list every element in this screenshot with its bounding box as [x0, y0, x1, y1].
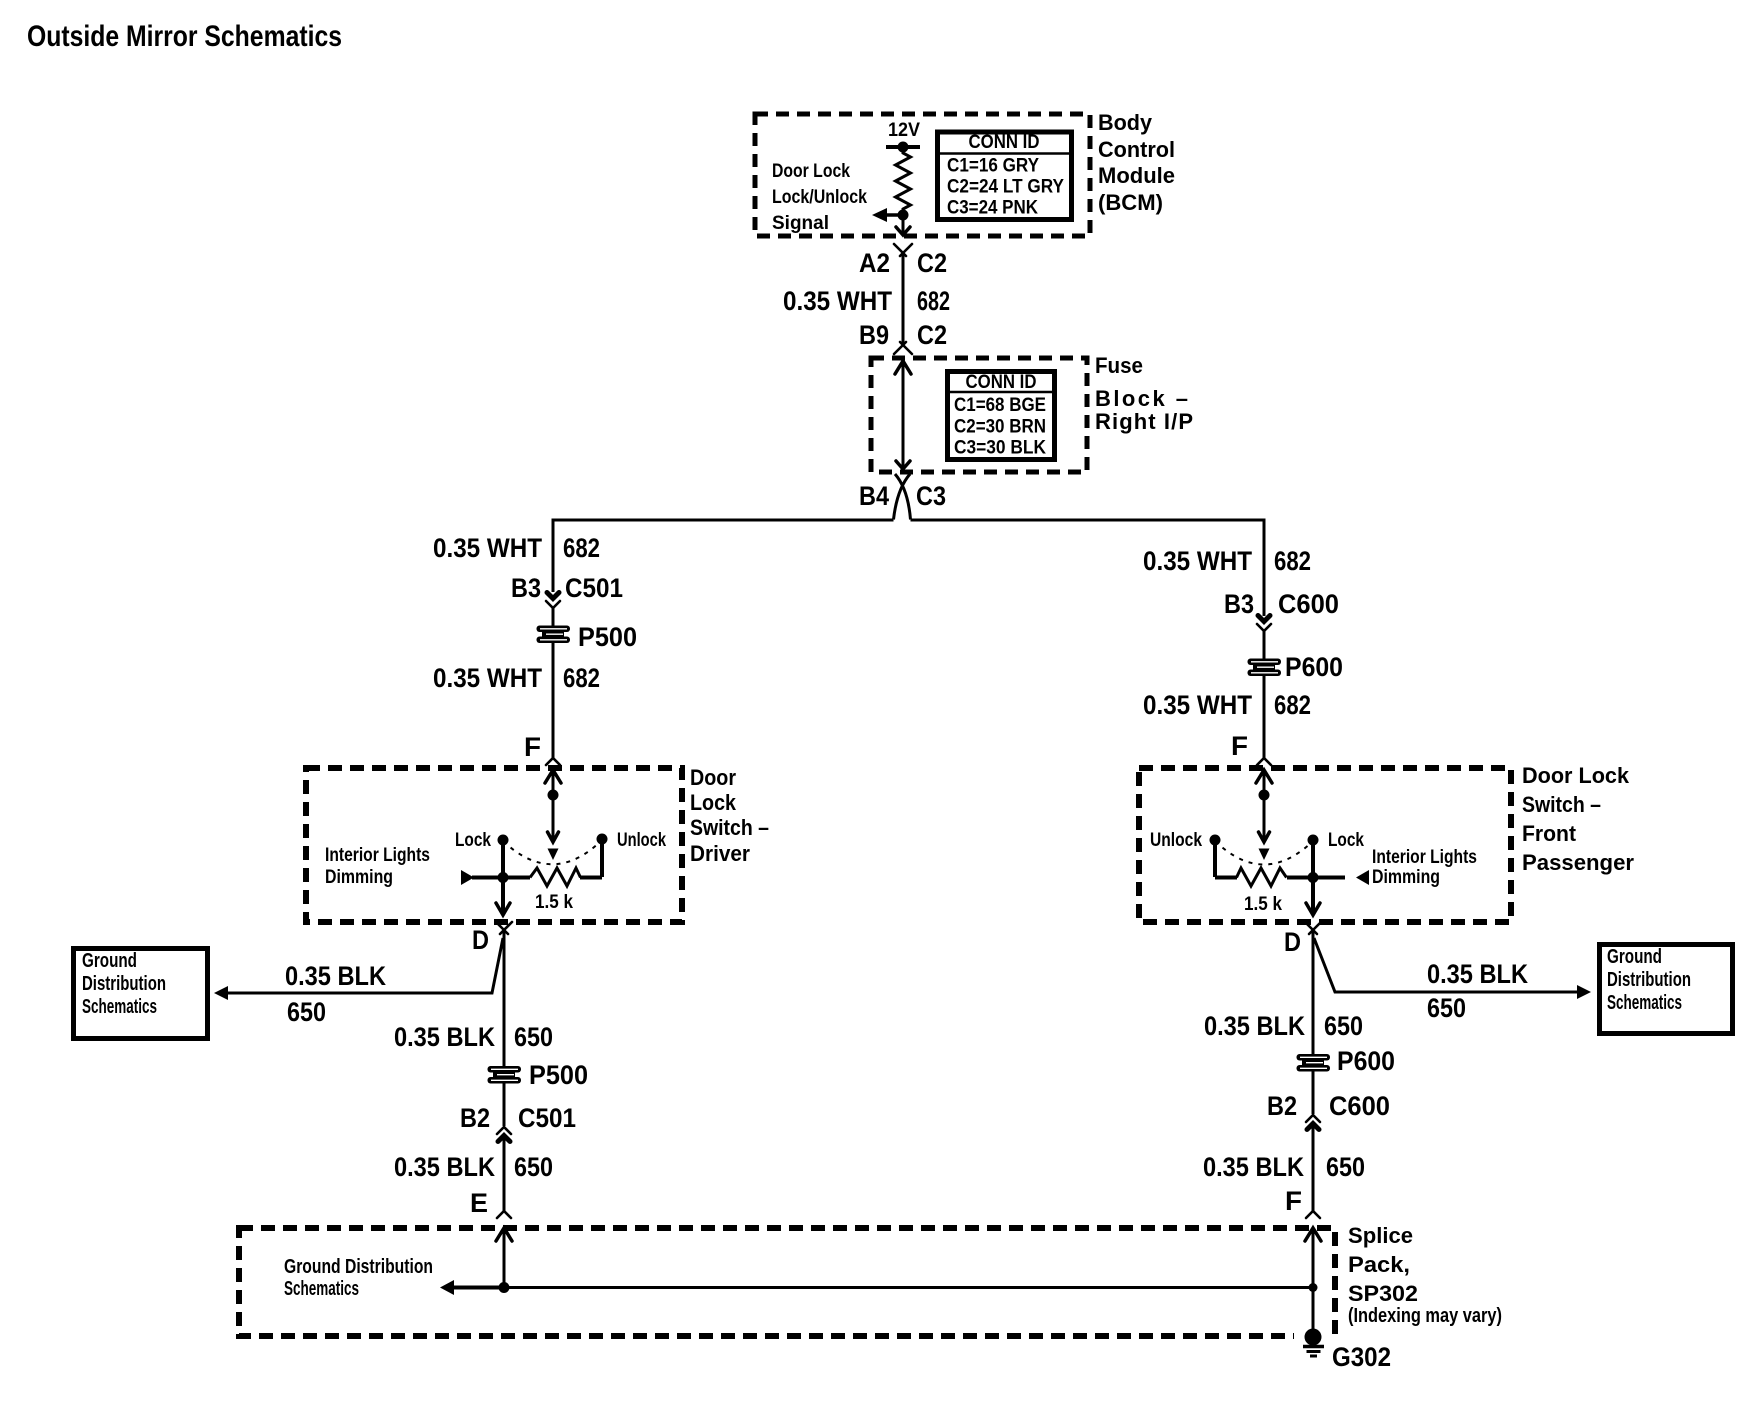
wire 682 WHT to driver door lock switch: [553, 520, 894, 592]
ground distribution arrow (bottom left): [440, 1280, 504, 1295]
svg-text:682: 682: [563, 663, 600, 693]
wire 650 BLK down from D (passenger): [1312, 931, 1315, 1054]
svg-text:Right I/P: Right I/P: [1095, 409, 1193, 434]
down arrow to switch wiper: [548, 832, 559, 842]
entry arrow into driver switch: [545, 770, 561, 783]
svg-text:0.35 BLK: 0.35 BLK: [1204, 1011, 1305, 1041]
dimming label Interior Lights Dimming (driver): [325, 845, 430, 888]
svg-text:CONN ID: CONN ID: [969, 132, 1040, 153]
output wire with down arrow (passenger switch pin D): [1306, 877, 1320, 915]
svg-text:C2=30 BRN: C2=30 BRN: [954, 417, 1046, 438]
Ground Distribution Schematics label (bottom): [284, 1256, 433, 1300]
svg-text:A2: A2: [859, 248, 890, 278]
connector chevron at pin F (passenger switch): [1257, 758, 1271, 765]
svg-text:P500: P500: [529, 1060, 588, 1090]
connector C600 halves (male arrow + female chevron): [1257, 616, 1271, 632]
svg-text:Ground: Ground: [82, 950, 137, 972]
svg-text:0.35 BLK: 0.35 BLK: [394, 1152, 495, 1182]
junction dot inside passenger switch: [1259, 790, 1270, 801]
junction dot at dimming tap (driver): [498, 872, 509, 883]
svg-text:0.35 WHT: 0.35 WHT: [1143, 546, 1252, 576]
grommet P500 (lower): [488, 1066, 522, 1084]
wire from Unlock contact down (passenger): [1213, 843, 1217, 877]
wire inside driver switch: [552, 770, 555, 841]
svg-text:0.35 BLK: 0.35 BLK: [394, 1022, 495, 1052]
svg-text:1.5 k: 1.5 k: [535, 892, 573, 913]
svg-text:Schematics: Schematics: [284, 1278, 359, 1300]
Lock contact dot (driver): [498, 835, 509, 846]
svg-text:650: 650: [287, 997, 326, 1027]
svg-text:D: D: [472, 925, 489, 955]
resistor 1.5k (driver switch): [503, 868, 602, 886]
wire from P600 down to switch: [1263, 676, 1266, 758]
output wire with down arrow (driver switch pin D): [496, 877, 510, 915]
Unlock contact dot (driver): [597, 834, 608, 845]
svg-text:Front: Front: [1522, 821, 1577, 846]
svg-text:Unlock: Unlock: [617, 830, 666, 851]
entry arrow into bottom box (right, pin F): [1305, 1228, 1321, 1287]
signal arrow to Door Lock Lock/Unlock Signal: [887, 213, 903, 217]
svg-text:Splice: Splice: [1348, 1223, 1413, 1248]
svg-text:C600: C600: [1329, 1091, 1390, 1121]
wire from Lock contact down: [501, 843, 505, 877]
dimming label Interior Lights Dimming (passenger): [1372, 847, 1477, 888]
svg-text:G302: G302: [1332, 1342, 1391, 1372]
down arrow to switch wiper (passenger): [1259, 832, 1270, 842]
resistor 1.5k (passenger switch): [1215, 868, 1313, 886]
svg-text:Distribution: Distribution: [1607, 969, 1691, 991]
svg-text:C2: C2: [917, 320, 947, 350]
svg-text:Door Lock: Door Lock: [772, 161, 850, 182]
connector chevron at splice pack pin F: [1306, 1211, 1320, 1218]
svg-text:B2: B2: [1267, 1091, 1297, 1121]
down arrow at fuse block exit: [896, 461, 910, 469]
svg-text:Dimming: Dimming: [1372, 867, 1440, 888]
Ground Distribution Schematics label (left): [82, 950, 166, 1018]
svg-text:SP302: SP302: [1348, 1281, 1418, 1306]
entry arrow into bottom box (left, pin E): [496, 1228, 512, 1287]
Ground Distribution Schematics label (right): [1607, 946, 1691, 1014]
junction dot at signal tap: [898, 210, 909, 221]
svg-text:Pack,: Pack,: [1348, 1252, 1410, 1277]
connector split at fuse block pins B4/C3: [894, 474, 911, 520]
wire from Unlock contact down: [600, 842, 604, 877]
branch wire to ground distribution (passenger): [1314, 938, 1577, 992]
junction dot inside driver switch: [548, 790, 559, 801]
svg-text:Module: Module: [1098, 163, 1175, 188]
switch name label Door Lock Switch - Driver: [690, 765, 769, 866]
wire from P500 to connector C501 (lower): [503, 1083, 506, 1126]
grommet P500 (upper): [537, 626, 571, 644]
svg-text:0.35 WHT: 0.35 WHT: [1143, 690, 1252, 720]
connector C501 halves (lower, pointing up): [497, 1127, 511, 1142]
svg-text:C600: C600: [1278, 589, 1339, 619]
module: Door Lock Switch - Front Passenger dashed box: [1139, 768, 1511, 922]
connector C600 halves (lower, pointing up): [1306, 1115, 1320, 1130]
wire from splice to ground G302: [1312, 1287, 1315, 1333]
wire from C501 to grommet P500: [552, 607, 555, 626]
svg-text:Interior Lights: Interior Lights: [1372, 847, 1477, 868]
branch wire to ground distribution (driver): [228, 938, 503, 993]
wire from P600 to connector C600 (lower): [1312, 1071, 1315, 1114]
arrow into ground distribution schematics (right): [1577, 985, 1591, 999]
svg-text:C501: C501: [565, 573, 623, 603]
svg-text:C2=24 LT GRY: C2=24 LT GRY: [947, 177, 1064, 198]
connector C501 halves (male arrow + female chevron): [546, 593, 560, 609]
svg-text:C1=16 GRY: C1=16 GRY: [947, 156, 1039, 177]
interior lights dimming arrow (driver): [461, 870, 503, 885]
grommet P600 (upper): [1248, 659, 1282, 677]
junction dot at splice SP302: [1309, 1283, 1318, 1292]
wire through fuse block with up arrow: [895, 361, 911, 374]
svg-text:Passenger: Passenger: [1522, 850, 1634, 875]
junction dot at dimming tap (passenger): [1308, 872, 1319, 883]
fuse block name label: [1095, 353, 1193, 434]
svg-text:Control: Control: [1098, 137, 1175, 162]
svg-text:C2: C2: [917, 248, 947, 278]
12V supply rail bar: [886, 145, 920, 149]
splice pack name label SP302: [1348, 1223, 1502, 1327]
wire from P500 down to switch: [552, 643, 555, 758]
svg-text:650: 650: [514, 1152, 553, 1182]
module: Door Lock Switch - Driver dashed box: [306, 768, 682, 922]
Lock contact dot (passenger): [1308, 835, 1319, 846]
svg-text:682: 682: [917, 286, 950, 316]
connector half (male) at fuse block pin B9: [894, 342, 912, 354]
wire 650 BLK down from D (driver): [503, 931, 506, 1066]
svg-text:Switch –: Switch –: [690, 815, 769, 840]
module: Body Control Module (BCM) dashed box: [755, 114, 1090, 236]
connector chevron at pin F (driver switch): [546, 758, 560, 765]
grommet P600 (lower): [1297, 1054, 1331, 1072]
svg-text:Distribution: Distribution: [82, 973, 166, 995]
svg-text:Unlock: Unlock: [1150, 830, 1202, 851]
svg-text:B4: B4: [859, 481, 889, 511]
svg-text:Schematics: Schematics: [1607, 992, 1682, 1014]
svg-text:682: 682: [1274, 690, 1311, 720]
Ground Distribution Schematics box (left): [74, 949, 208, 1039]
dashed wiper arc: [503, 840, 602, 864]
svg-text:682: 682: [1274, 546, 1311, 576]
svg-text:12V: 12V: [888, 120, 920, 141]
entry arrow into passenger switch: [1256, 770, 1272, 783]
wiper contact (common): [548, 849, 559, 861]
wire from C600 to splice pack F: [1312, 1125, 1315, 1211]
svg-text:B3: B3: [511, 573, 541, 603]
connector half at passenger switch pin D: [1305, 922, 1321, 934]
svg-text:P500: P500: [578, 622, 637, 652]
svg-text:0.35 BLK: 0.35 BLK: [285, 961, 386, 991]
svg-text:Lock: Lock: [690, 790, 737, 815]
wire from C600 to grommet P600: [1263, 630, 1266, 659]
svg-text:1.5 k: 1.5 k: [1244, 894, 1282, 915]
Ground Distribution Schematics dashed box (bottom) with splice pack edge: [239, 1228, 1335, 1336]
ground bus wire to splice SP302: [504, 1286, 1313, 1289]
svg-text:C3=30 BLK: C3=30 BLK: [954, 438, 1046, 459]
svg-text:0.35 BLK: 0.35 BLK: [1427, 959, 1528, 989]
arrow into ground distribution schematics (left): [214, 986, 228, 1000]
svg-text:F: F: [1231, 731, 1248, 761]
wire with down arrow exiting BCM: [902, 215, 905, 234]
switch name label Door Lock Switch - Front Passenger: [1522, 763, 1634, 875]
module: Fuse Block - Right I/P dashed box: [871, 358, 1087, 472]
svg-text:P600: P600: [1337, 1046, 1395, 1076]
svg-text:Outside Mirror Schematics: Outside Mirror Schematics: [27, 20, 342, 53]
BCM name label: [1098, 110, 1175, 215]
dashed wiper arc (passenger): [1215, 841, 1313, 865]
svg-text:(Indexing may vary): (Indexing may vary): [1348, 1305, 1502, 1327]
svg-text:CONN ID: CONN ID: [966, 372, 1037, 393]
connector half at driver switch pin D: [496, 922, 512, 934]
svg-text:Door Lock: Door Lock: [1522, 763, 1630, 788]
svg-text:P600: P600: [1285, 652, 1343, 682]
svg-text:650: 650: [1326, 1152, 1365, 1182]
svg-text:C3=24 PNK: C3=24 PNK: [947, 198, 1038, 219]
svg-text:Fuse: Fuse: [1095, 353, 1143, 378]
svg-text:650: 650: [1427, 993, 1466, 1023]
interior lights dimming arrow (passenger): [1313, 870, 1369, 885]
svg-text:Door: Door: [690, 765, 736, 790]
svg-text:(BCM): (BCM): [1098, 190, 1163, 215]
connector half (female) at BCM pin A2: [894, 244, 912, 256]
svg-text:0.35 WHT: 0.35 WHT: [433, 533, 542, 563]
svg-text:650: 650: [514, 1022, 553, 1052]
svg-text:Ground Distribution: Ground Distribution: [284, 1256, 433, 1278]
svg-text:B3: B3: [1224, 589, 1254, 619]
svg-text:Interior Lights: Interior Lights: [325, 845, 430, 866]
svg-text:B2: B2: [460, 1103, 490, 1133]
wire from Lock contact down (passenger): [1311, 842, 1315, 877]
ground G302 terminal dot: [1305, 1329, 1322, 1346]
junction dot (bottom left): [499, 1282, 510, 1293]
svg-text:C3: C3: [916, 481, 946, 511]
Ground Distribution Schematics box (right): [1600, 945, 1733, 1034]
svg-text:Signal: Signal: [772, 213, 829, 234]
wire inside passenger switch: [1263, 770, 1266, 841]
svg-text:F: F: [1285, 1186, 1302, 1216]
svg-text:650: 650: [1324, 1011, 1363, 1041]
connector chevron at pin E: [497, 1211, 511, 1218]
svg-text:B9: B9: [859, 320, 889, 350]
wire 682 WHT from BCM to fuse block: [902, 252, 905, 346]
svg-text:C501: C501: [518, 1103, 576, 1133]
svg-text:Ground: Ground: [1607, 946, 1662, 968]
svg-text:Schematics: Schematics: [82, 996, 157, 1018]
svg-text:Driver: Driver: [690, 841, 750, 866]
wire 682 WHT to front passenger door lock switch: [911, 520, 1265, 616]
svg-text:0.35 WHT: 0.35 WHT: [433, 663, 542, 693]
wiper contact (common, passenger): [1259, 849, 1270, 861]
svg-text:Dimming: Dimming: [325, 867, 393, 888]
ground symbol G302: [1303, 1347, 1324, 1357]
svg-text:0.35 WHT: 0.35 WHT: [783, 286, 892, 316]
svg-text:0.35 BLK: 0.35 BLK: [1203, 1152, 1304, 1182]
svg-text:682: 682: [563, 533, 600, 563]
junction dot on 12V rail: [898, 142, 909, 153]
svg-text:Switch –: Switch –: [1522, 792, 1601, 817]
Unlock contact dot (passenger): [1210, 835, 1221, 846]
svg-text:Lock: Lock: [455, 830, 491, 851]
svg-text:Lock: Lock: [1328, 830, 1364, 851]
svg-text:C1=68 BGE: C1=68 BGE: [954, 395, 1046, 416]
svg-text:F: F: [524, 732, 541, 762]
svg-text:Lock/Unlock: Lock/Unlock: [772, 187, 867, 208]
svg-text:Body: Body: [1098, 110, 1153, 135]
wire from C501 to splice pack E: [503, 1137, 506, 1211]
svg-text:D: D: [1284, 927, 1301, 957]
resistor (BCM internal): [896, 147, 911, 215]
connector table CONN ID (fuse block): [945, 372, 1057, 460]
connector table CONN ID (BCM): [935, 132, 1074, 220]
BCM internal signal label: Door Lock Lock/Unlock Signal: [772, 161, 867, 234]
svg-text:E: E: [470, 1188, 488, 1218]
